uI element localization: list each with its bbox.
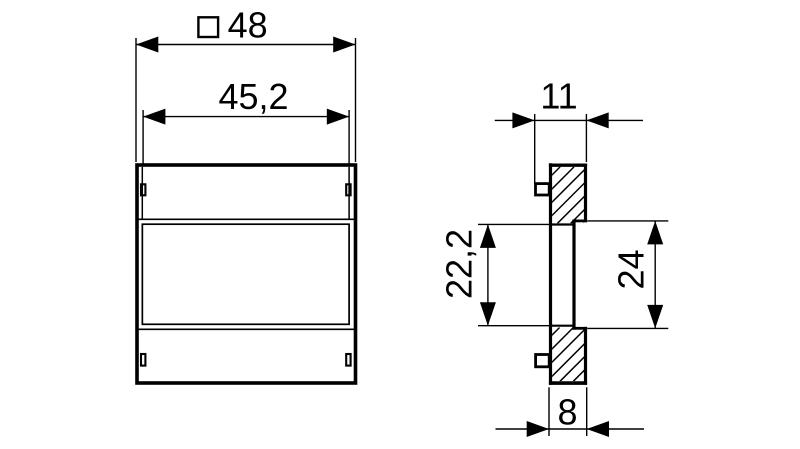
svg-text:45,2: 45,2: [218, 76, 288, 117]
svg-text:48: 48: [228, 5, 268, 46]
svg-text:24: 24: [611, 249, 652, 289]
svg-text:8: 8: [557, 392, 577, 433]
svg-text:11: 11: [540, 76, 577, 117]
svg-text:22,2: 22,2: [439, 229, 480, 299]
